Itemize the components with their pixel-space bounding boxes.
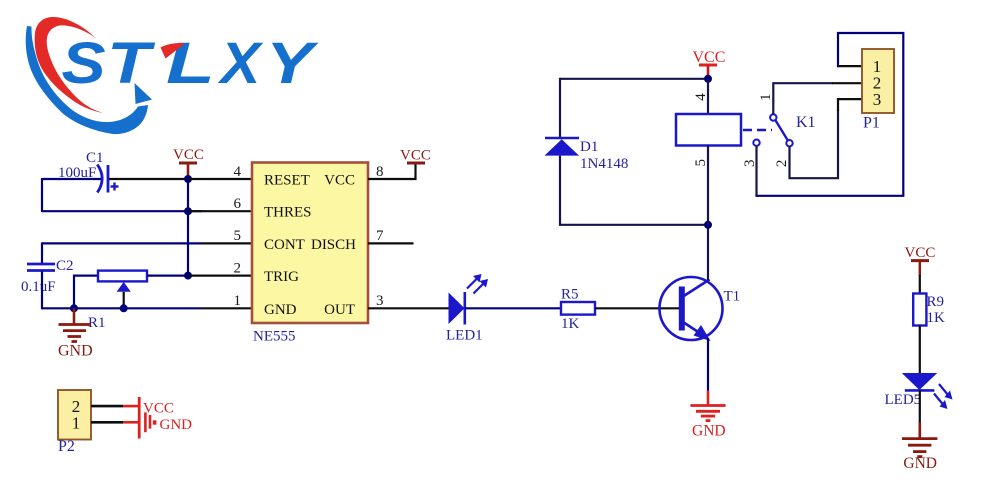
node junction R1 wiper <box>120 304 128 312</box>
svg-text:T: T <box>107 30 156 95</box>
wire P2 pin1 red part <box>123 421 138 424</box>
svg-text:TRIG: TRIG <box>264 269 299 285</box>
power VCC symbol (relay) <box>693 49 726 79</box>
svg-text:6: 6 <box>234 196 242 212</box>
switch arm <box>775 120 788 141</box>
svg-text:LED5: LED5 <box>885 392 922 408</box>
svg-text:NE555: NE555 <box>253 329 296 345</box>
wire pin2 stub <box>188 275 252 277</box>
power VCC symbol (left) <box>173 147 204 179</box>
wire pin3 OUT <box>368 307 449 309</box>
wire R1 left lead <box>74 276 98 309</box>
wire pin6 stub <box>188 210 252 212</box>
wire CONT row <box>42 242 202 244</box>
svg-text:4: 4 <box>234 164 242 180</box>
wire GND row (pin1) <box>42 307 202 309</box>
svg-text:R9: R9 <box>927 294 945 310</box>
svg-text:0.1uF: 0.1uF <box>21 279 56 295</box>
svg-text:VCC: VCC <box>173 147 204 163</box>
resistor R5 <box>561 287 595 333</box>
node junction at VCC/C1 <box>184 175 192 183</box>
svg-text:LED1: LED1 <box>446 328 483 344</box>
svg-text:RESET: RESET <box>264 173 310 189</box>
svg-text:P2: P2 <box>58 438 75 455</box>
svg-text:3: 3 <box>376 293 384 309</box>
LED LED1 <box>446 274 488 344</box>
svg-text:8: 8 <box>376 164 384 180</box>
logo STLXY <box>26 17 320 134</box>
svg-text:1K: 1K <box>561 316 580 332</box>
wire LED5 to GND <box>919 390 921 423</box>
svg-text:1: 1 <box>72 414 81 433</box>
svg-text:1: 1 <box>758 94 774 102</box>
wire pin5 stub <box>202 242 252 244</box>
svg-text:L: L <box>166 31 215 96</box>
ground GND (R1 area) <box>58 308 93 359</box>
svg-text:K1: K1 <box>796 114 816 131</box>
wire R9 to LED5 <box>919 326 921 375</box>
wire T1 emitter down <box>707 338 709 391</box>
svg-text:3: 3 <box>873 90 882 109</box>
svg-text:VCC: VCC <box>400 148 431 164</box>
wire vertical x188 <box>187 179 189 276</box>
ground GND (LED5) <box>902 423 937 472</box>
power VCC symbol (R9) <box>905 245 936 276</box>
resistor R1 (pot) <box>88 271 147 331</box>
wire P2 pin1 <box>91 421 123 424</box>
logo text STLXY <box>62 30 320 96</box>
svg-text:5: 5 <box>693 159 709 167</box>
svg-text:C1: C1 <box>86 150 104 166</box>
svg-text:T1: T1 <box>724 289 741 305</box>
svg-text:P1: P1 <box>863 115 880 132</box>
wire relay top lead <box>707 79 709 114</box>
wire LED1 to R5 <box>465 307 561 309</box>
connector P2 <box>58 390 91 455</box>
node junction TRIG <box>184 272 192 280</box>
wire THRES row <box>42 210 202 212</box>
wire C1 to VCC junction <box>109 178 188 180</box>
diode D1 <box>545 138 629 172</box>
svg-text:OUT: OUT <box>324 302 355 318</box>
relay link dashes <box>743 129 772 131</box>
wire left vertical C2-to-GNDrow <box>41 272 43 310</box>
wire D1 top <box>560 78 708 80</box>
wire VCC to R9 <box>919 275 921 294</box>
switch contact 2 <box>786 140 792 146</box>
wire P2 pin2 red part <box>123 405 138 408</box>
svg-text:THRES: THRES <box>264 205 312 221</box>
LED LED5 <box>885 373 953 409</box>
node junction VCC/D1 <box>704 75 712 83</box>
wire pin8 stub <box>368 164 416 179</box>
wire pin1 stub <box>202 307 252 309</box>
svg-text:VCC: VCC <box>905 245 936 261</box>
ground bars (P2) <box>145 412 156 432</box>
svg-text:1N4148: 1N4148 <box>580 156 628 172</box>
wire pin7 stub <box>368 242 414 244</box>
wire left vertical C1-to-THRES <box>41 178 43 212</box>
wire left vertical CONT-to-C2 <box>41 242 43 263</box>
svg-text:4: 4 <box>693 93 709 101</box>
svg-text:100uF: 100uF <box>58 165 96 181</box>
logo blue arrow hook <box>135 83 153 104</box>
capacitor C1 <box>58 150 119 193</box>
svg-text:2: 2 <box>774 160 790 168</box>
wire relay bottom lead <box>707 146 709 225</box>
wire big loop to P1 pin1 <box>757 33 904 196</box>
wire D1 left lower <box>559 156 561 226</box>
wire C1 row left <box>42 178 101 180</box>
svg-text:CONT: CONT <box>264 237 305 253</box>
wire P2 pin2 <box>91 405 123 408</box>
logo red accent on L <box>161 43 186 58</box>
svg-text:VCC: VCC <box>143 401 174 417</box>
wire D1 left upper <box>559 78 561 137</box>
op-amp U1 NE555 body <box>252 163 368 345</box>
wire switch3 down <box>755 146 757 197</box>
capacitor C2 <box>21 258 74 295</box>
relay coil K1 <box>676 114 741 146</box>
logo red arc <box>35 17 103 113</box>
connector P1 <box>862 49 894 132</box>
wire switch2 to P1 pin3 <box>790 110 839 178</box>
ground GND (T1) <box>690 391 725 440</box>
switch contact 1 <box>770 114 776 120</box>
wire T1 collector up <box>707 225 709 280</box>
wire R5 to T1 base <box>595 307 680 309</box>
svg-text:GND: GND <box>692 423 726 440</box>
svg-text:GND: GND <box>903 455 937 472</box>
wire pin4 stub <box>188 178 252 180</box>
svg-text:R1: R1 <box>88 315 106 331</box>
svg-text:R5: R5 <box>561 287 579 303</box>
svg-text:2: 2 <box>234 261 242 277</box>
svg-text:X: X <box>217 32 264 96</box>
wire D1 bottom <box>560 224 708 226</box>
svg-text:VCC: VCC <box>693 49 726 66</box>
resistor R9 <box>913 294 945 327</box>
logo blue arc <box>26 26 148 134</box>
node junction D1 bottom <box>704 221 712 229</box>
node junction GND/R1 <box>70 304 78 312</box>
svg-text:C2: C2 <box>56 258 74 274</box>
transistor T1 <box>660 277 741 341</box>
svg-text:Y: Y <box>266 30 320 95</box>
power VCC bar (P2) <box>138 397 141 439</box>
svg-text:VCC: VCC <box>324 173 355 189</box>
switch contact 3 <box>753 140 759 146</box>
svg-text:DISCH: DISCH <box>311 237 356 253</box>
svg-text:S: S <box>62 32 106 96</box>
svg-text:1: 1 <box>234 293 242 309</box>
svg-text:1K: 1K <box>927 310 946 326</box>
svg-text:7: 7 <box>376 228 384 244</box>
svg-text:D1: D1 <box>580 139 598 155</box>
node junction THRES <box>184 207 192 215</box>
power VCC symbol (pin8) <box>400 148 431 164</box>
svg-text:5: 5 <box>234 228 242 244</box>
wire R1 right lead <box>147 275 188 277</box>
svg-text:GND: GND <box>160 417 193 433</box>
svg-text:GND: GND <box>264 302 297 318</box>
svg-text:GND: GND <box>58 343 93 360</box>
wire switch1 to P1 pin2 <box>773 83 833 114</box>
